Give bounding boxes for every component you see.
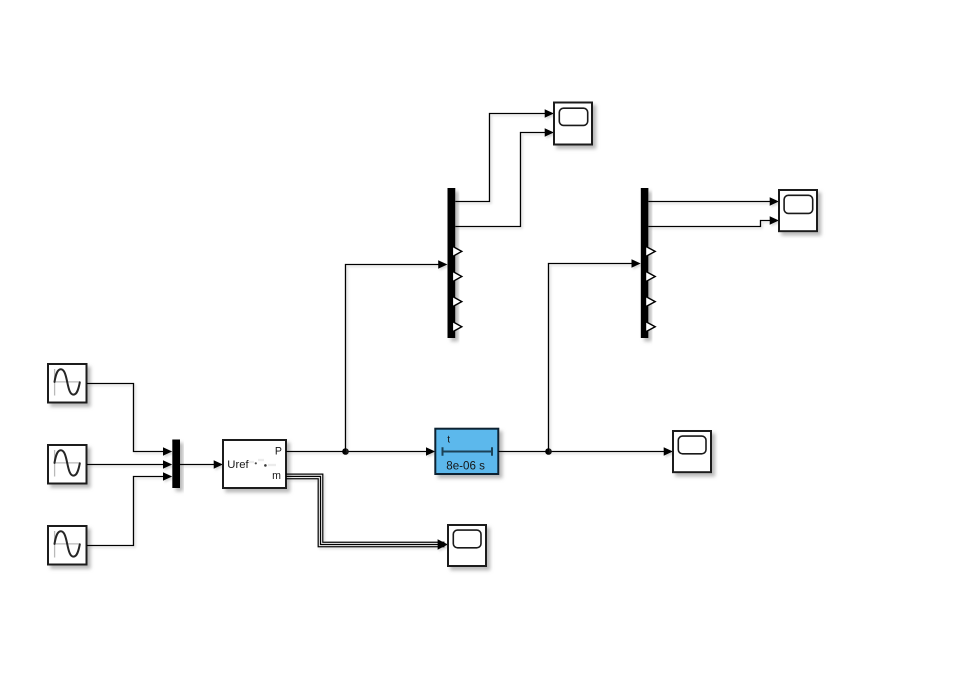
wire Mux to subsystem Uref input <box>180 460 223 469</box>
unconnected output port 4 of Demux1 <box>452 271 461 281</box>
wire clock block to Scope3 (node line y=451.5) <box>498 447 673 456</box>
sine wave source block Sine1 <box>48 364 87 403</box>
unconnected output port 6 of Demux1 <box>452 322 461 332</box>
wire Uref port m to Scope4 (3-line vector signal) <box>286 474 448 550</box>
scope Scope3 (middle right, 1 input) <box>673 431 711 472</box>
wire Uref port P to clock block (node line y=451) <box>286 447 435 456</box>
sine wave source block Sine3 <box>48 526 87 565</box>
wire Demux1 out1 to Scope1 input 1 <box>455 109 554 201</box>
wire Sine1 to Mux input 1 <box>87 384 173 456</box>
svg-text:8e-06 s: 8e-06 s <box>446 459 485 472</box>
mux Mux (3 inputs) <box>172 440 180 489</box>
junction node J2 <box>545 448 552 455</box>
svg-text:t: t <box>447 435 450 446</box>
unconnected output port 3 of Demux1 <box>452 246 461 256</box>
wire Sine3 to Mux input 3 <box>87 472 173 545</box>
subsystem block Uref (SVPWM modulator) <box>223 440 286 488</box>
junction node J1 <box>342 448 349 455</box>
unconnected output port 4 of Demux2 <box>646 271 656 281</box>
wire Demux1 out2 to Scope1 input 2 <box>455 128 554 226</box>
unconnected output port 3 of Demux2 <box>646 246 656 256</box>
wire branch J1 up to Demux1 input <box>346 260 448 451</box>
svg-text:Uref: Uref <box>227 459 249 471</box>
svg-text:m: m <box>272 470 281 482</box>
unconnected output port 6 of Demux2 <box>646 322 656 332</box>
svg-text:P: P <box>275 445 282 457</box>
demux Demux1 (6 outputs) <box>448 188 456 338</box>
scope Scope2 (right, 2 inputs) <box>779 190 817 231</box>
weighted sample time / digital clock block "8e-06 s" (blue) <box>435 429 498 474</box>
unconnected output port 5 of Demux1 <box>452 296 461 306</box>
wire branch J2 up to Demux2 input <box>549 259 641 451</box>
sine wave source block Sine2 <box>48 445 87 484</box>
unconnected output port 5 of Demux2 <box>646 296 656 306</box>
faded ghost text remnant inside Uref block <box>249 460 276 467</box>
wire Demux2 out1 to Scope2 input 1 <box>648 197 779 206</box>
wire Demux2 out2 to Scope2 input 2 <box>648 216 779 226</box>
demux Demux2 (6 outputs) <box>641 188 649 338</box>
scope Scope4 (bottom, 1 input) <box>448 525 486 566</box>
scope Scope1 (top, 2 inputs) <box>554 103 592 145</box>
wire Sine2 to Mux input 2 <box>87 460 173 469</box>
